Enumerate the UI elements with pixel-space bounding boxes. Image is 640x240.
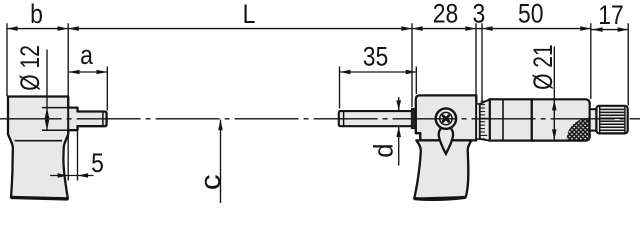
svg-text:d: d: [368, 143, 399, 157]
left anvil body silhouette: [8, 97, 107, 199]
dimension d line upper: [398, 97, 400, 111]
dimension d arrow up: [396, 126, 401, 137]
ratchet neck: [590, 109, 597, 130]
svg-text:a: a: [80, 40, 93, 70]
screw phillips cross: [443, 116, 449, 122]
svg-text:5: 5: [91, 148, 104, 178]
dimension d line lower: [398, 126, 400, 165]
screw inner circle: [440, 112, 452, 124]
dimension 50 arrow right: [580, 26, 591, 31]
adjusting nut section: [532, 99, 590, 140]
body handle silhouette: [414, 140, 471, 198]
wire centre line (axis): [0, 118, 640, 120]
dimension Ø21 arrow up: [552, 100, 557, 111]
dimension L arrow left: [68, 26, 79, 31]
thimble bevel graduation ticks: [481, 101, 488, 139]
dimension 28 line: [412, 28, 476, 30]
dimension 3 line: [476, 28, 482, 30]
dimension b extension line right: [67, 23, 69, 96]
dimension Ø12 leader line: [46, 50, 48, 131]
lock lever teardrop: [439, 127, 453, 154]
spindle chamfer line: [343, 111, 345, 126]
svg-text:28: 28: [433, 0, 459, 29]
dimension 17 arrow right: [618, 27, 629, 32]
dimension 35 extension line left: [339, 67, 341, 109]
dimension a extension line right: [106, 67, 108, 111]
svg-text:35: 35: [363, 42, 389, 72]
left body hidden bore line bottom: [42, 129, 68, 131]
svg-text:c: c: [194, 174, 226, 190]
dimension b arrow right: [58, 26, 69, 31]
dimension Ø12 arrow down: [45, 120, 50, 131]
dimension a arrow right: [97, 70, 108, 75]
thimble bevel cone: [480, 99, 490, 140]
dimension 50 line: [482, 28, 591, 30]
dimension Ø12 arrow up: [45, 108, 50, 119]
svg-text:50: 50: [518, 0, 544, 29]
dimension 28 extension line left: [411, 23, 413, 107]
dimension 17 extension line right: [627, 23, 629, 105]
spindle bushing: [411, 108, 416, 128]
dimension 28 arrow left: [412, 26, 423, 31]
thimble ring line: [502, 100, 504, 141]
svg-text:b: b: [30, 0, 43, 29]
svg-text:Ø 21: Ø 21: [528, 44, 558, 90]
dimension 35 extension line right: [415, 67, 417, 95]
svg-text:Ø 12: Ø 12: [16, 45, 46, 91]
dimension L line: [68, 28, 412, 30]
thimble: [490, 99, 532, 140]
dimension 50 extension line right: [590, 23, 592, 99]
dimension a line: [69, 71, 107, 73]
spindle: [339, 111, 412, 126]
ratchet knurl lines: [600, 109, 625, 130]
dimension 5 line: [50, 175, 94, 177]
left shaft chamfer line: [102, 112, 104, 126]
dimension 5 extension line right: [77, 132, 79, 181]
screw outer circle: [436, 108, 456, 128]
left body right edge line: [67, 97, 69, 135]
dimension 35 arrow left: [340, 70, 351, 75]
dimension b line: [7, 28, 68, 30]
left body hidden bore line top: [42, 107, 68, 109]
annotation c arrow: [218, 120, 223, 131]
svg-text:17: 17: [598, 0, 624, 30]
ratchet rim line left: [599, 107, 601, 133]
dimension Ø21 leader line: [553, 47, 555, 141]
left body bottom thick edge: [11, 197, 68, 199]
svg-text:3: 3: [473, 0, 486, 29]
dimension 5 arrow left: [58, 173, 69, 178]
ratchet rim line right: [624, 107, 626, 133]
dimension a arrow left: [69, 70, 80, 75]
dimension 5 extension line left: [67, 136, 69, 181]
body hub: [416, 95, 477, 140]
dimension d arrow down: [396, 100, 401, 111]
dimension Ø21 arrow down: [552, 129, 557, 140]
dimension 17 line: [591, 29, 628, 31]
left body handle joint line: [15, 140, 62, 142]
dimension b extension line left: [6, 23, 8, 96]
body handle bottom thick edge: [414, 197, 465, 199]
dimension 35 line: [340, 71, 417, 73]
dimension L arrow right: [401, 26, 412, 31]
dimension b arrow left: [7, 26, 18, 31]
annotation c line: [220, 120, 222, 203]
dimension 50 arrow left: [482, 26, 493, 31]
knurl cross-hatch: [567, 118, 589, 140]
dimension 28 arrow right: [465, 26, 476, 31]
sleeve: [476, 104, 480, 139]
dimension 35 arrow right: [406, 70, 417, 75]
dimension 3 extension line left: [475, 23, 477, 101]
svg-text:L: L: [243, 0, 256, 29]
dimension 3 extension line right: [481, 23, 483, 101]
dimension 17 arrow left: [592, 27, 603, 32]
dimension 5 arrow right: [78, 173, 89, 178]
ratchet stop knob: [596, 106, 627, 134]
